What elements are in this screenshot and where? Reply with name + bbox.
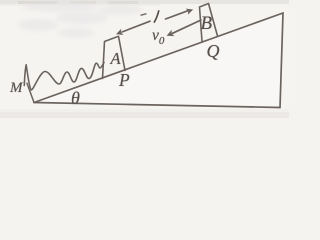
wedge interior fill — [34, 13, 283, 108]
label Q — [207, 41, 220, 62]
label B — [201, 13, 213, 35]
small dash mark left of l — [141, 14, 147, 16]
block B — [200, 4, 218, 42]
distance l right arrow shaft — [166, 10, 190, 19]
label l (script) — [154, 10, 159, 22]
spring coil — [24, 62, 104, 90]
label v0 — [152, 27, 164, 47]
arrowhead of l left arrow — [116, 29, 124, 35]
label theta — [71, 88, 80, 109]
wedge right edge — [280, 13, 283, 108]
scan background tint bottom — [0, 112, 289, 118]
scan background tint top — [0, 0, 289, 4]
block A — [103, 36, 126, 78]
label P — [119, 70, 130, 91]
wedge bottom edge — [34, 103, 280, 108]
velocity v0 arrow shaft — [173, 20, 202, 33]
distance l left arrow shaft — [122, 21, 150, 32]
label M — [10, 80, 23, 97]
label A — [111, 49, 121, 69]
arrowhead of l right arrow — [186, 9, 194, 15]
spring anchor post at M — [27, 83, 34, 102]
arrowhead of v0 arrow — [167, 30, 175, 36]
inclined plane wedge: hypotenuse — [34, 13, 283, 103]
